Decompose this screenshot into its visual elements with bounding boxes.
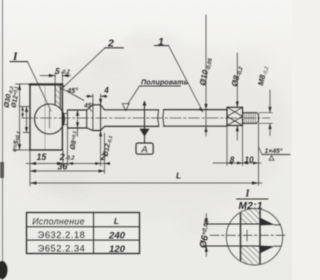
M8 dim line xyxy=(269,90,271,112)
threaded stub M8 xyxy=(243,112,257,114)
8/10 ext lines xyxy=(226,126,228,166)
head outline xyxy=(30,84,62,150)
scan artifact: dark mark left edge mid xyxy=(0,162,4,178)
left dia12 ext xyxy=(19,106,30,108)
bottom dim line row2 (36) xyxy=(30,170,105,172)
dia12 arrows xyxy=(25,107,28,113)
row1: 15 arrows xyxy=(30,162,36,165)
lower 45deg leader xyxy=(89,108,92,111)
scan artifact: bottom-left blob xyxy=(0,261,8,279)
left dia30 ext xyxy=(16,83,30,85)
lines right of wedges xyxy=(274,224,281,226)
leader 1 arrow tip xyxy=(199,107,204,112)
polish mark triangle xyxy=(122,104,129,111)
8 arrows xyxy=(227,162,233,165)
e arrows xyxy=(21,107,24,111)
dim4 arrows xyxy=(87,95,93,98)
phi12 arrows xyxy=(99,99,102,105)
stub dia8 xyxy=(68,109,87,111)
dim phi10 long line xyxy=(205,15,207,136)
bore inner wall xyxy=(59,85,61,109)
main shaft segment 2 xyxy=(164,109,227,111)
dim 5-0.2 line xyxy=(40,75,55,77)
dia30 arrows xyxy=(18,84,21,90)
e offset dim xyxy=(22,107,24,118)
36 arrows xyxy=(30,169,36,172)
row1: 2-0.2 arrows (outside) xyxy=(58,162,63,165)
paper noise xyxy=(0,0,1,1)
bore bottom wall xyxy=(54,85,56,106)
dim 5-0.2 ext lines xyxy=(54,73,56,84)
main shaft segment 1 xyxy=(105,109,159,111)
thread lines xyxy=(244,113,255,123)
dim phi8-0.2 line xyxy=(236,53,238,107)
rotated dims xyxy=(2,56,271,158)
bottom dim line row1 xyxy=(26,163,110,165)
break lines xyxy=(158,110,159,127)
circle vertical center dash xyxy=(49,110,51,128)
L arrows xyxy=(30,181,37,184)
knurled box xyxy=(227,107,243,125)
L dim line xyxy=(30,182,262,184)
central shade xyxy=(10,40,290,220)
dia6 dim line + arrows xyxy=(205,214,207,224)
detail center vertical dash xyxy=(246,230,248,241)
45deg chamfer callout arm xyxy=(62,89,84,101)
scan artifact: left edge line xyxy=(2,0,4,280)
10 arrows xyxy=(243,162,249,165)
dim phi12 line xyxy=(100,99,102,105)
view arrow A xyxy=(136,101,153,156)
leader detail I xyxy=(10,61,28,63)
phi8-0.2 arrows xyxy=(236,102,239,108)
detail centerline xyxy=(210,234,285,236)
leader item 2 xyxy=(62,48,105,89)
dim phi8 line xyxy=(77,110,79,137)
phi10 arrows xyxy=(204,104,207,110)
row1: 2 chamfer arrows (outside) xyxy=(95,162,100,165)
scan smudges xyxy=(0,0,1,1)
detail boundary circle xyxy=(226,209,282,265)
head top edge thick xyxy=(30,84,63,86)
wedges xyxy=(260,218,275,226)
head section hatch band xyxy=(55,85,60,106)
1x45 triangle mark xyxy=(269,156,274,160)
axis centerline xyxy=(22,117,270,119)
M8 ext lines xyxy=(259,112,273,114)
bottom row1 ext lines xyxy=(29,151,31,187)
dim 4 ext + line xyxy=(92,94,94,104)
groove (2-0.2) after head face xyxy=(62,114,64,125)
8/10 dim line xyxy=(213,162,261,164)
collar dia12 xyxy=(93,104,101,106)
band horizontals / ext lines xyxy=(204,223,260,225)
5-0.2 arrows xyxy=(49,74,55,77)
arrowheads xyxy=(18,74,272,185)
collar-to-shaft chamfer 2 xyxy=(101,105,105,110)
bore mouth chamfer xyxy=(60,86,64,90)
cone chamfer 45 xyxy=(87,105,93,110)
polish note underline + leader xyxy=(140,85,181,87)
socket circle xyxy=(35,104,65,134)
hidden line in head xyxy=(44,85,46,150)
M8 arrows xyxy=(268,107,271,113)
cone small end xyxy=(86,110,88,128)
phi8 stub arrows xyxy=(76,110,79,116)
leader item 1 xyxy=(155,45,169,47)
1x45 note underline + leader xyxy=(262,154,290,156)
